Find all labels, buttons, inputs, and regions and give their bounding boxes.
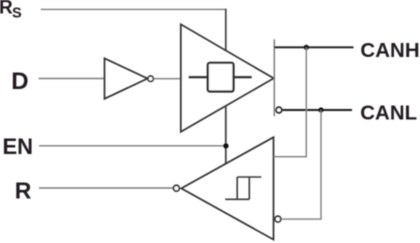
wire D to inverter input [39,78,105,80]
wire CANH horizontal [274,46,353,48]
hysteresis symbol [225,177,261,199]
receiver inverting input bubble [275,216,281,222]
wire inverter to driver [154,78,181,80]
wire RS horizontal [41,8,227,10]
svg-text:R: R [15,178,32,204]
inverter output bubble [148,76,153,81]
wire EN [39,145,226,147]
wire R to receiver output [39,187,173,189]
wire CANL to receiver inverting input [282,110,321,219]
driver amplifier [181,24,274,132]
svg-text:EN: EN [3,134,34,159]
svg-text:CANL: CANL [360,103,417,125]
wire EN vertical to driver and receiver [225,106,227,164]
driver output stage box [189,63,252,92]
wire RS vertical drop to driver [225,9,227,51]
wire driver output bus vertical [273,39,275,116]
junction EN node [223,143,228,148]
receiver output bubble [174,185,180,191]
label RS [0,0,22,21]
receiver comparator [181,137,273,239]
junction CANL node [318,107,323,112]
driver CANL output bubble [276,107,282,113]
junction CANH node [304,45,309,50]
inverter U1 [105,58,148,99]
svg-text:D: D [11,68,28,95]
wire CANH to receiver input [274,47,307,156]
wire CANL horizontal [283,109,352,111]
svg-text:S: S [12,5,22,21]
svg-text:CANH: CANH [360,40,419,62]
